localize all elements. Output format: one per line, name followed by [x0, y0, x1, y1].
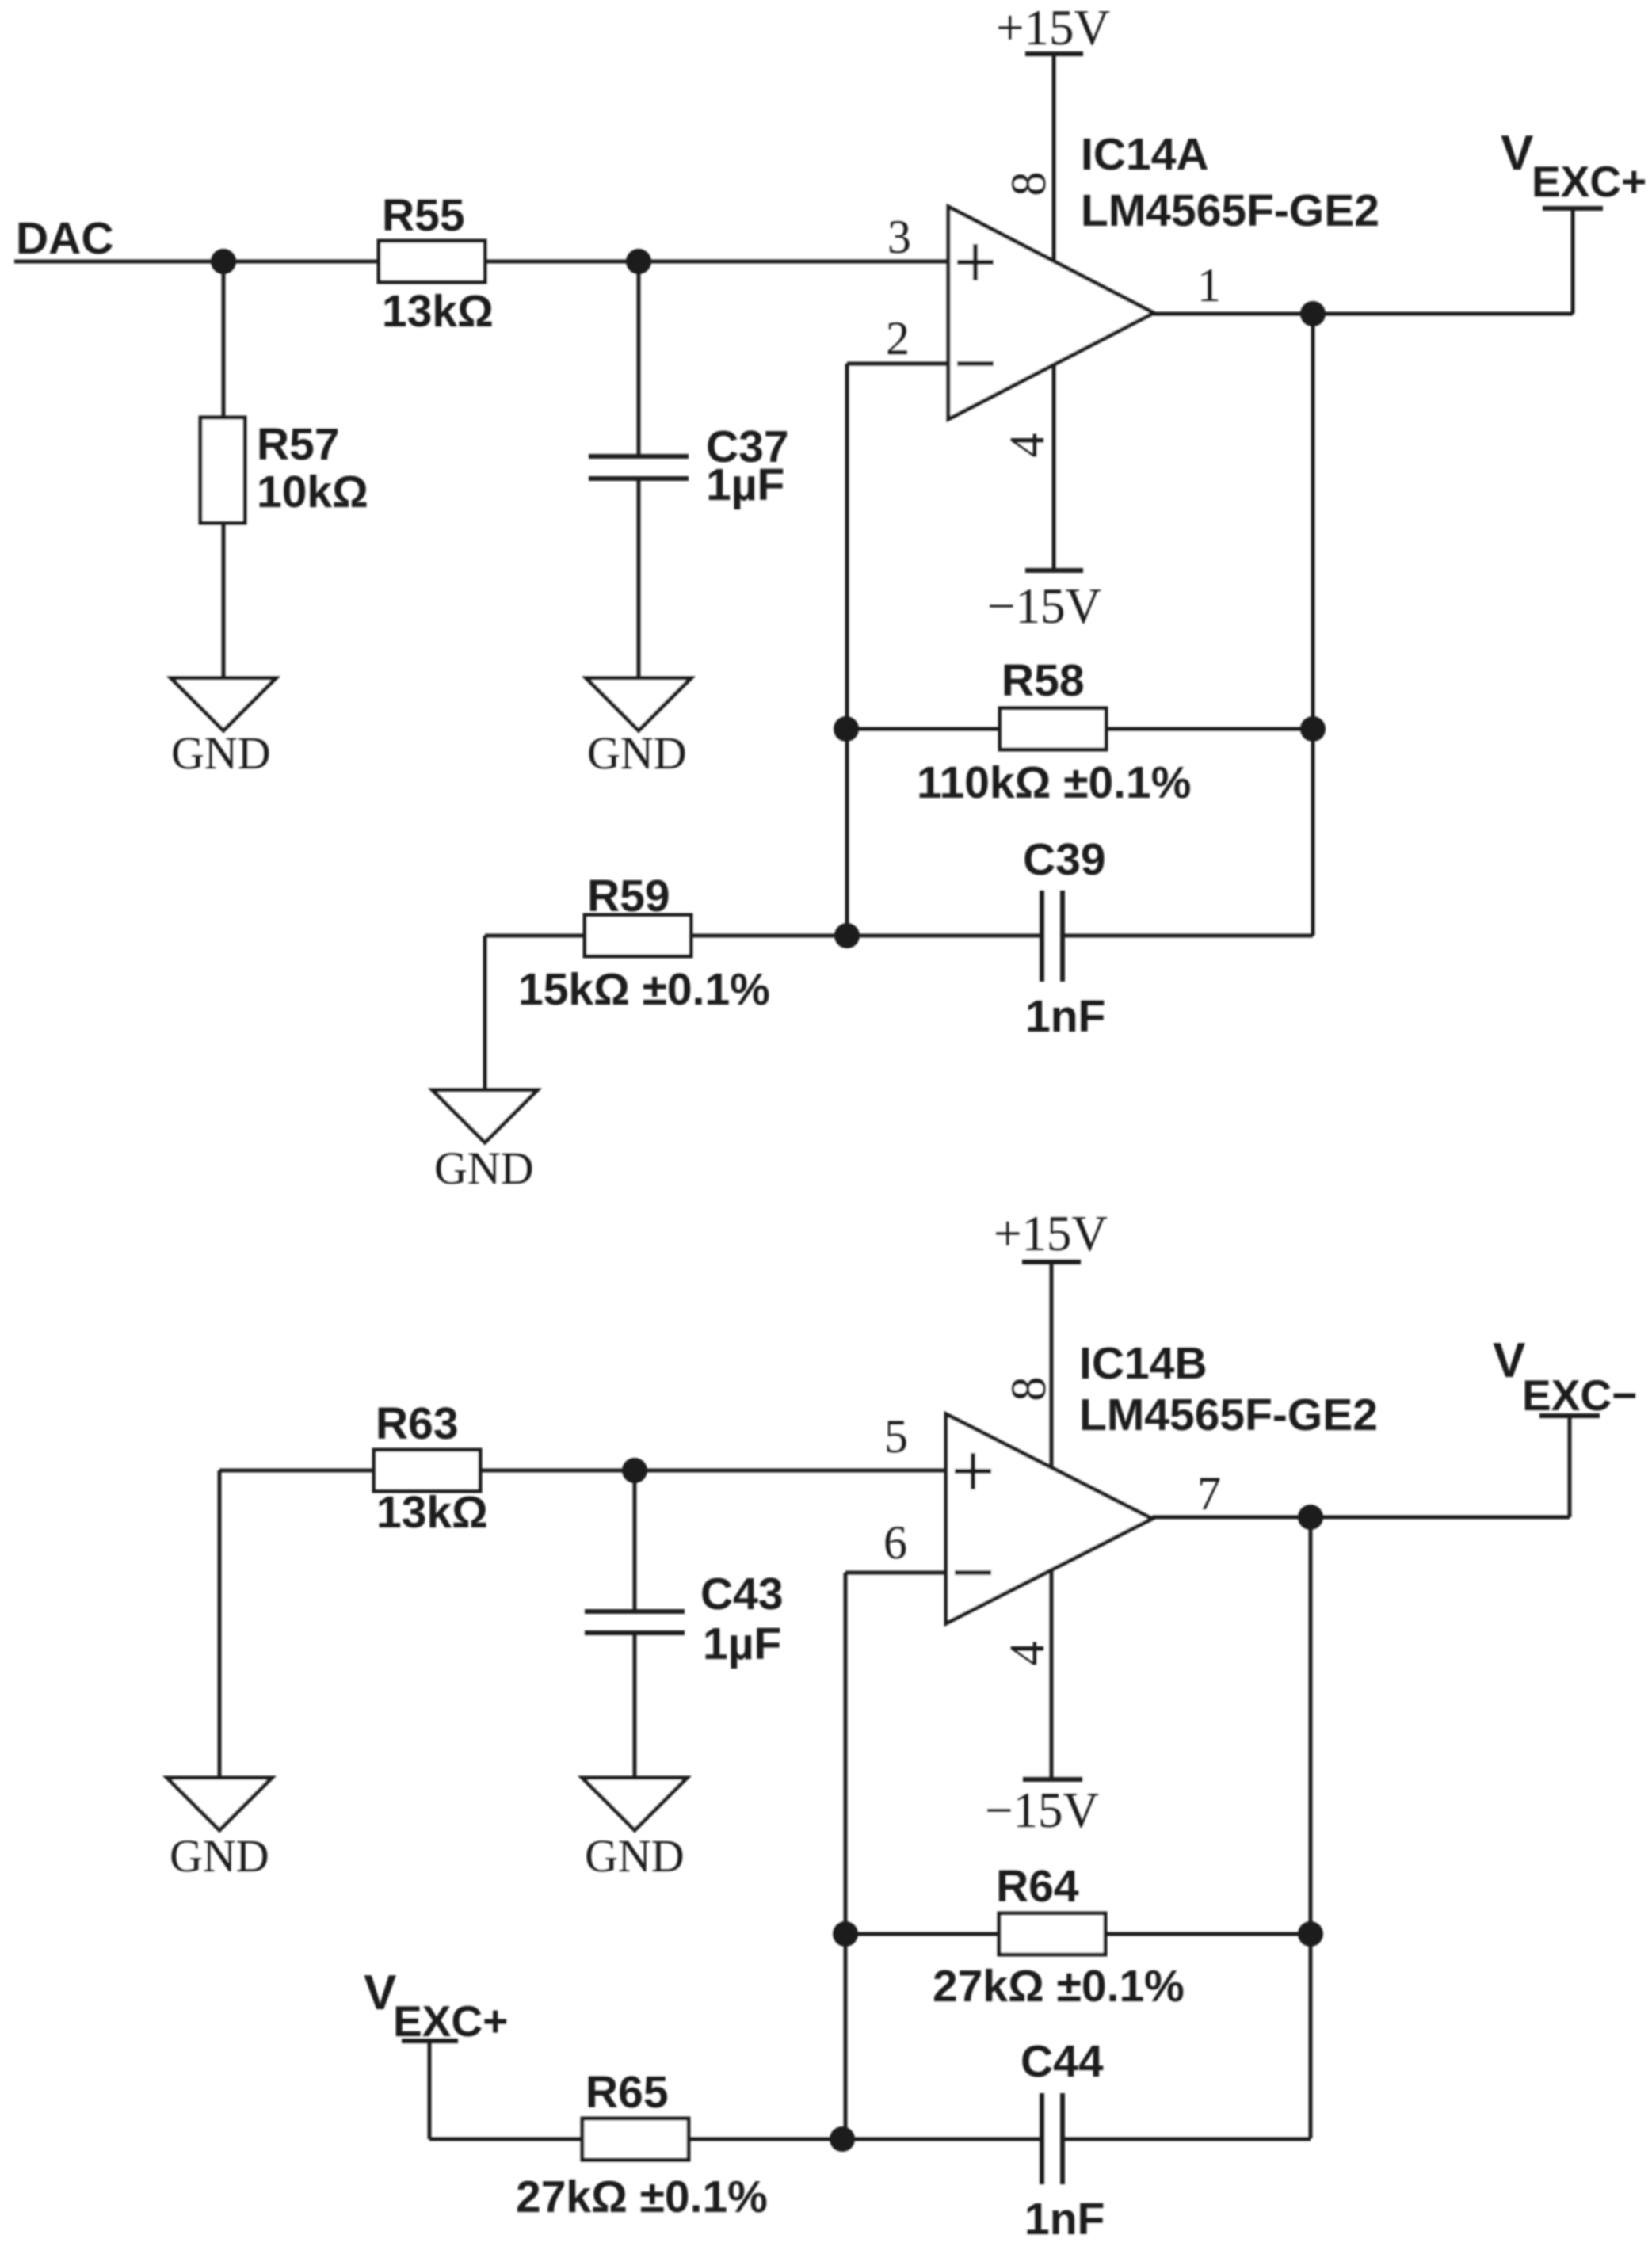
svg-text:EXC−: EXC−	[1522, 1371, 1637, 1420]
svg-text:V: V	[1501, 126, 1533, 181]
junction	[1300, 716, 1326, 742]
ground	[171, 678, 276, 779]
wire	[222, 261, 226, 418]
junction	[626, 249, 651, 274]
terminal VEXC+	[1501, 126, 1646, 314]
capacitor C39	[1023, 834, 1106, 1042]
wire	[480, 1469, 946, 1473]
svg-text:R63: R63	[376, 1398, 459, 1449]
ground	[433, 1090, 537, 1194]
wire	[1106, 727, 1313, 731]
op-amp IC14B	[946, 1338, 1378, 1623]
svg-text:15kΩ ±0.1%: 15kΩ ±0.1%	[518, 964, 770, 1015]
capacitor C37	[589, 421, 789, 510]
junction	[1300, 301, 1326, 326]
svg-text:LM4565F-GE2: LM4565F-GE2	[1081, 185, 1379, 236]
svg-text:5: 5	[884, 1410, 908, 1463]
wire	[1052, 54, 1056, 261]
svg-text:V: V	[364, 1966, 396, 2020]
wire	[1152, 1516, 1570, 1520]
svg-text:−15V: −15V	[985, 1783, 1099, 1838]
svg-text:13kΩ: 13kΩ	[382, 286, 494, 337]
wire	[637, 261, 641, 456]
junction	[833, 1921, 858, 1947]
svg-text:7: 7	[1197, 1467, 1221, 1520]
svg-text:R55: R55	[382, 190, 465, 241]
svg-text:R65: R65	[586, 2067, 669, 2118]
wire	[633, 1470, 637, 1611]
resistor R55	[379, 190, 494, 337]
junction	[830, 2126, 855, 2152]
wire	[222, 523, 226, 678]
wire	[847, 362, 948, 366]
ground	[586, 678, 691, 779]
wire	[637, 479, 641, 678]
svg-text:6: 6	[883, 1516, 907, 1569]
wire	[1063, 934, 1313, 938]
wire	[1063, 2138, 1311, 2141]
resistor R59	[518, 871, 770, 1015]
power -15V	[987, 570, 1101, 634]
junction	[622, 1458, 647, 1483]
wire	[14, 260, 379, 264]
wire	[485, 934, 585, 938]
svg-text:DAC: DAC	[16, 213, 114, 264]
resistor R65	[516, 2067, 768, 2222]
svg-text:R64: R64	[996, 1861, 1079, 1912]
junction	[834, 716, 859, 742]
svg-text:1nF: 1nF	[1025, 991, 1105, 1042]
svg-text:1nF: 1nF	[1024, 2194, 1105, 2244]
wire	[689, 2138, 1042, 2141]
wire	[1052, 364, 1056, 570]
svg-text:4: 4	[1001, 1642, 1055, 1666]
svg-text:13kΩ: 13kΩ	[376, 1487, 488, 1538]
svg-text:GND: GND	[587, 727, 687, 779]
svg-text:2: 2	[886, 312, 910, 364]
svg-text:R58: R58	[1002, 655, 1085, 706]
svg-text:8: 8	[1002, 172, 1056, 196]
svg-text:27kΩ ±0.1%: 27kΩ ±0.1%	[933, 1961, 1185, 2012]
svg-text:1µF: 1µF	[706, 460, 784, 510]
svg-text:−15V: −15V	[987, 578, 1101, 634]
wire	[845, 1932, 999, 1936]
wire	[633, 1633, 637, 1778]
svg-text:1µF: 1µF	[703, 1619, 781, 1669]
svg-text:IC14A: IC14A	[1081, 129, 1209, 180]
svg-text:LM4565F-GE2: LM4565F-GE2	[1079, 1390, 1378, 1440]
resistor R64	[933, 1861, 1185, 2012]
wire	[485, 260, 948, 264]
capacitor C44	[1021, 2036, 1105, 2244]
wire	[1050, 1571, 1054, 1779]
wire	[219, 1469, 374, 1473]
svg-text:R59: R59	[587, 871, 670, 921]
svg-text:GND: GND	[585, 1830, 685, 1882]
svg-text:3: 3	[887, 211, 911, 263]
wire	[845, 364, 849, 936]
ground	[582, 1778, 687, 1882]
wire	[1105, 1932, 1311, 1936]
svg-text:EXC+: EXC+	[1532, 157, 1646, 206]
svg-text:1: 1	[1197, 259, 1221, 311]
power +15V	[996, 0, 1110, 55]
wire	[844, 1573, 848, 2139]
resistor R63	[374, 1398, 488, 1538]
svg-text:GND: GND	[171, 727, 271, 779]
junction	[834, 923, 860, 948]
wire	[1309, 1517, 1313, 2138]
wire	[483, 936, 487, 1090]
junction	[1298, 1921, 1323, 1947]
wire	[218, 1470, 222, 1778]
resistor R57	[200, 418, 368, 523]
wire	[429, 2138, 582, 2141]
svg-text:+15V: +15V	[996, 0, 1110, 55]
terminal VEXC+	[364, 1966, 508, 2139]
svg-text:27kΩ ±0.1%: 27kΩ ±0.1%	[516, 2172, 768, 2222]
svg-text:110kΩ ±0.1%: 110kΩ ±0.1%	[917, 757, 1191, 808]
junction	[1298, 1505, 1323, 1530]
power -15V	[985, 1779, 1099, 1838]
wire	[846, 727, 1000, 731]
svg-text:R57: R57	[257, 419, 340, 470]
svg-text:IC14B: IC14B	[1079, 1338, 1208, 1389]
power +15V	[994, 1206, 1108, 1262]
wire	[691, 934, 1042, 938]
resistor R58	[917, 655, 1191, 808]
svg-text:GND: GND	[434, 1142, 534, 1194]
svg-text:8: 8	[1002, 1377, 1056, 1402]
svg-text:GND: GND	[170, 1830, 269, 1882]
junction	[211, 249, 236, 274]
wire	[1050, 1262, 1054, 1467]
svg-text:EXC+: EXC+	[393, 1997, 508, 2046]
svg-text:10kΩ: 10kΩ	[257, 467, 368, 517]
svg-text:C39: C39	[1023, 834, 1106, 885]
op-amp IC14A	[948, 129, 1379, 419]
svg-text:V: V	[1493, 1333, 1525, 1388]
wire	[1311, 314, 1315, 936]
wire	[845, 1571, 946, 1575]
svg-text:4: 4	[1001, 433, 1055, 458]
svg-text:C44: C44	[1021, 2036, 1104, 2087]
wire	[1154, 312, 1573, 316]
svg-text:C43: C43	[700, 1569, 784, 1619]
svg-text:+15V: +15V	[994, 1206, 1108, 1261]
terminal VEXC-	[1493, 1333, 1637, 1517]
ground	[167, 1778, 272, 1882]
capacitor C43	[585, 1569, 784, 1669]
